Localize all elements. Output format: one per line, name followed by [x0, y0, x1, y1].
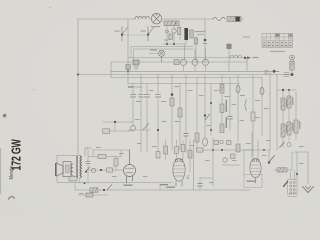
- node dots tuner: [166, 43, 168, 45]
- wire bottom of block: [288, 196, 298, 198]
- switch S1a: [121, 27, 128, 42]
- trimmer circle y142: [220, 140, 224, 144]
- wire y152 right: [294, 151, 308, 153]
- transformer T1 core: [76, 156, 77, 179]
- vertical label text column a: [226, 100, 227, 112]
- resistor R12r hatched: [294, 120, 298, 133]
- resistor R8 hatched: [281, 98, 285, 110]
- wire x200 bottom: [199, 178, 201, 190]
- label tube V3: [247, 181, 256, 182]
- tube V2 output pentode: [173, 158, 185, 186]
- wire bus y72: [111, 70, 272, 72]
- capacitor C5 plates x186: [184, 134, 189, 137]
- switch contact y190: [107, 185, 112, 191]
- wire pot to grid row: [110, 130, 134, 132]
- antenna trimmer circle x292: [290, 55, 295, 60]
- resistor box x222 upper: [220, 104, 224, 113]
- label tuner: [195, 31, 205, 32]
- wire vertical x308: [307, 152, 309, 184]
- switch contact right column: [280, 142, 285, 148]
- wire row y150 mid: [196, 149, 253, 151]
- capacitor C7 plates x230: [228, 117, 233, 120]
- tube V3 rectifier: [250, 158, 261, 183]
- node dot y150 a: [212, 149, 214, 151]
- table frame: [262, 34, 293, 48]
- switch blade dark at block: [284, 182, 288, 187]
- wire vertical x289: [288, 90, 290, 141]
- label switch S1b: [141, 31, 146, 32]
- wire bus y75.5: [78, 74, 292, 76]
- wire vertical x141: [140, 75, 142, 153]
- feedback row y122: [103, 121, 133, 123]
- tuner extra small parts: [166, 30, 169, 33]
- speaker driver box: [63, 162, 71, 177]
- wire bottom bus y183: [57, 182, 172, 184]
- fuse wavy element: [213, 17, 225, 20]
- wire vertical x222: [221, 75, 223, 131]
- wire stub y87: [128, 86, 142, 88]
- wire vertical x133: [132, 84, 134, 126]
- earth ground arrow: [303, 186, 314, 193]
- table caption: [270, 51, 285, 52]
- component box y195: [86, 193, 93, 197]
- wire top link y150: [93, 150, 130, 157]
- node dot x205: [204, 39, 207, 42]
- wire vertical x193 long: [193, 140, 195, 190]
- vertical label text column b: [226, 117, 227, 128]
- wire vertical x186b: [185, 75, 187, 153]
- wire bottom bus y190 center: [160, 189, 250, 191]
- grid stopper box left of V2: [164, 146, 168, 154]
- capacitor C8 oval x238: [236, 85, 240, 92]
- hatch element before bus end: [284, 73, 289, 76]
- wire x297: [296, 152, 298, 179]
- wire vertical x180: [179, 84, 181, 151]
- node dot y122: [114, 121, 116, 123]
- wire short y195: [78, 194, 108, 196]
- capacitor C1 electrolytic dark: [184, 28, 188, 40]
- component box volume pot: [103, 129, 110, 134]
- wire vertical x211: [210, 84, 212, 136]
- wire verticals above V3: [252, 132, 258, 158]
- wire AVC pair line b: [134, 49, 194, 62]
- resistor R15 box x190: [188, 150, 192, 158]
- small component box: [190, 30, 193, 38]
- wire speaker top link: [57, 156, 76, 183]
- assorted value label speckles: [79, 86, 304, 194]
- wire bus y80: [111, 77, 262, 79]
- wire x166 drop: [165, 140, 167, 160]
- pilot lamp circle: [159, 50, 165, 62]
- node dot x283 y90: [282, 89, 284, 91]
- wire bus links: [75, 183, 160, 190]
- wire row y156.5: [88, 150, 121, 157]
- trimmer circle y177: [91, 168, 95, 172]
- component box x238 low: [236, 144, 240, 152]
- capacitor C6 electrolytic oval x205: [203, 138, 208, 146]
- wire x190 drop: [189, 140, 191, 172]
- resistor R5 box x180: [178, 108, 182, 117]
- wire left main vertical: [77, 19, 79, 156]
- wire vertical x205: [204, 19, 206, 63]
- component box on heater bus: [133, 60, 139, 65]
- wire vertical x196: [195, 36, 197, 63]
- heater circle V2: [192, 59, 198, 65]
- component box y150: [197, 148, 204, 152]
- cathode circuit outline under V3: [244, 175, 262, 188]
- wire vertical x197b: [196, 78, 198, 153]
- wire stub above V2 b: [182, 140, 184, 159]
- node dot x172: [171, 93, 174, 96]
- coil small on y57.8: [230, 55, 241, 57]
- node dot x296 y174: [296, 173, 298, 175]
- connector C arrow end of bus: [265, 70, 280, 76]
- wire vertical x262: [261, 78, 263, 136]
- label tube V2: [166, 187, 175, 188]
- wire x292 to bus: [291, 70, 293, 75]
- mains connector block: [288, 180, 298, 195]
- wire x269: [268, 150, 270, 162]
- resistor R12 box row upper: [98, 154, 106, 158]
- trimmer circle below heater box: [135, 66, 138, 69]
- node dot y150 b: [221, 149, 223, 151]
- label speck mid4: [188, 90, 193, 91]
- component box above bus left: [69, 177, 77, 182]
- lamp/ballast tube circle: [151, 14, 161, 24]
- resistor box x222 lower: [220, 124, 224, 133]
- box on heater line: [174, 60, 179, 65]
- heater circle V3: [203, 59, 209, 65]
- capacitor C4 plates x158: [155, 94, 160, 97]
- capacitor C3 plates x147: [144, 94, 149, 97]
- wire heater feeds: [185, 44, 206, 59]
- wire heater circle stubs down: [184, 65, 206, 71]
- resistor R16 horizontal mains: [277, 168, 287, 172]
- label speck right1: [240, 95, 245, 96]
- speaker SP front bar: [55, 163, 56, 176]
- trimmer circle x225: [223, 158, 227, 162]
- wire vertical x229: [228, 49, 230, 72]
- faint speck top-left: [49, 7, 51, 9]
- component box y141 a: [214, 141, 219, 145]
- trimmer capacitor circle: [172, 29, 176, 33]
- wire stubs to block: [291, 170, 295, 180]
- resistor R1 hatched: [227, 17, 244, 22]
- wire right end of heater bus: [246, 58, 248, 72]
- switch contact mid row: [143, 124, 149, 131]
- label speck mid3: [175, 121, 180, 122]
- wire block drops: [167, 26, 180, 44]
- capacitor C2 plates x133: [130, 94, 135, 97]
- table grid columns: [266, 34, 288, 48]
- svg-text:C: C: [265, 70, 269, 76]
- wire y178 link: [200, 177, 212, 179]
- component box x253: [251, 112, 255, 121]
- faint speck mid-left: [33, 89, 35, 91]
- coil L1 mains choke: [135, 16, 149, 19]
- wire top link y90 right column: [277, 89, 296, 91]
- transformer T1 secondary winding: [71, 164, 73, 175]
- node dot x264: [263, 149, 265, 151]
- resistor R14 on y190: [90, 188, 98, 192]
- wire vertical x88: [85, 148, 88, 183]
- resistor R2 hatched: [164, 21, 179, 26]
- connector arrow end y57.8: [244, 57, 246, 59]
- wire vertical x253: [252, 75, 254, 157]
- vertical value labels right column: [286, 97, 300, 133]
- wire vertical x205b: [204, 75, 206, 139]
- node dot right bus end: [291, 73, 294, 76]
- wire secondary leads: [71, 164, 73, 175]
- label switch S1a: [115, 31, 120, 32]
- capacitor C12 plates x200 bottom: [198, 184, 203, 187]
- wire vertical x296: [295, 92, 297, 140]
- switch coupling dashed link: [124, 34, 146, 36]
- resistor R14b vertical x116: [114, 159, 118, 167]
- wire vertical x244: [243, 150, 245, 175]
- node dot x211b: [210, 129, 212, 131]
- left edge scan streak: [0, 148, 1, 194]
- capacitor C10 plates x88: [86, 161, 90, 163]
- node dot x211a: [210, 102, 212, 104]
- tick marks x205: [203, 43, 207, 45]
- label speck right2: [255, 100, 260, 101]
- wire y150 link: [244, 149, 270, 151]
- component box x232: [231, 154, 236, 159]
- node dot y183 left: [84, 182, 86, 184]
- table cell text speckles: [263, 38, 292, 46]
- pencil squiggle bottom-left corner: [9, 197, 15, 200]
- component box on x196: [194, 38, 197, 44]
- resistor R7 hatched x222: [220, 84, 224, 93]
- label speck mid2: [161, 101, 166, 102]
- wire vertical x158: [157, 75, 159, 152]
- wire grid row y170: [88, 169, 123, 171]
- wire top bus left: [78, 18, 135, 20]
- wire mid row y130: [128, 129, 150, 131]
- node dot x158: [157, 129, 159, 131]
- wire transformer bottom leads: [80, 148, 92, 183]
- wire row y165: [222, 164, 240, 166]
- resistor R13 box grid row: [107, 168, 113, 172]
- wire step down x111: [110, 62, 112, 78]
- svg-text:Mende: Mende: [9, 166, 16, 180]
- wire top bus right: [162, 18, 213, 20]
- label pilot lamp: [150, 50, 157, 51]
- resistor R10 hatched: [281, 124, 285, 137]
- wire vertical x270: [269, 71, 271, 150]
- capacitor curve bracket x246: [245, 100, 247, 111]
- component box y142 b: [227, 141, 232, 145]
- wire bus y83.5: [128, 83, 240, 85]
- wire line y57.8: [128, 57, 247, 59]
- trimmer circle right column: [287, 143, 291, 147]
- component small box above bus x229: [227, 44, 231, 49]
- wire heater bus y62: [111, 61, 247, 63]
- label speck mid1: [136, 101, 141, 102]
- transformer T1 primary winding: [80, 156, 82, 178]
- wire stub above V2 a: [176, 140, 178, 159]
- switch S1b: [147, 27, 154, 42]
- wire vertical x147: [146, 84, 148, 153]
- switch contact x205mid: [205, 114, 210, 120]
- tube V1 triode circle: [124, 150, 136, 183]
- wire mains link: [274, 152, 292, 170]
- resistor R4 box x172: [170, 98, 174, 106]
- wire vertical x230: [229, 78, 231, 131]
- resistor R9 hatched: [287, 96, 291, 108]
- wire drop x115: [114, 122, 116, 131]
- speaker SP cone: [56, 163, 63, 176]
- title text Mende 172GW: [9, 139, 24, 180]
- label speck right3: [225, 96, 230, 97]
- resistor R3 vertical x292: [290, 61, 294, 70]
- node dot grid row: [100, 169, 102, 171]
- node dot x289 y90: [288, 89, 290, 91]
- label under lamp: [151, 26, 160, 27]
- heater circle V1: [181, 59, 187, 65]
- switch contact near transformer: [86, 167, 90, 172]
- trimmer circle x133: [131, 126, 136, 131]
- wire AVC pair line a: [131, 47, 193, 58]
- wire tuner bottom: [163, 40, 186, 44]
- wire vertical x172: [171, 75, 173, 151]
- table grid rows: [262, 37, 293, 44]
- ink blot artifact left margin: [3, 114, 7, 118]
- capacitor C9 oval x262: [260, 87, 264, 94]
- wire bottom bus y190: [75, 189, 160, 191]
- node dot y190: [103, 189, 105, 191]
- label a70 right of tube: [160, 184, 168, 185]
- wire vertical x213: [212, 138, 214, 186]
- node dot left bus junction: [77, 74, 79, 76]
- label tube V1: [124, 185, 133, 186]
- switch contact mains: [269, 156, 275, 163]
- node dot x128 below box: [127, 70, 129, 72]
- table dark header cells: [275, 34, 279, 37]
- wire pilot lamp lead: [149, 52, 159, 54]
- resistor R11 hatched: [287, 122, 291, 135]
- wire vertical x238: [237, 75, 239, 143]
- resistor R6 box x197: [195, 133, 199, 142]
- component box on x128: [126, 65, 130, 70]
- wire vertical x283: [282, 90, 284, 148]
- label speck near table: [243, 37, 250, 38]
- wire vertical x128: [127, 19, 129, 84]
- wire vertical x277: [276, 75, 278, 151]
